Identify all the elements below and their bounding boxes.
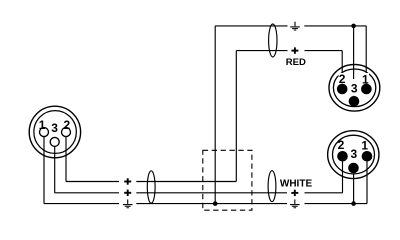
svg-text:3: 3: [51, 121, 58, 135]
svg-text:2: 2: [64, 118, 71, 132]
svg-text:1: 1: [39, 118, 46, 132]
svg-text:2: 2: [339, 72, 346, 86]
svg-text:3: 3: [351, 81, 358, 95]
svg-text:1: 1: [362, 72, 369, 86]
svg-text:2: 2: [338, 138, 345, 152]
svg-text:WHITE: WHITE: [280, 179, 313, 190]
svg-text:3: 3: [351, 147, 358, 161]
svg-text:RED: RED: [286, 57, 306, 68]
svg-text:1: 1: [361, 138, 368, 152]
